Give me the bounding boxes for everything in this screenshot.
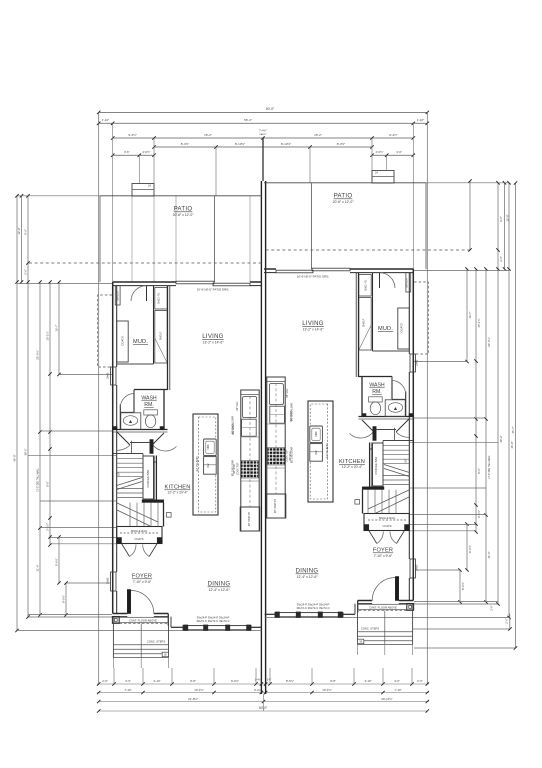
back wall with patio sliding door <box>113 281 176 283</box>
svg-text:16′-7″: 16′-7″ <box>55 324 59 331</box>
svg-text:7′-4¾″: 7′-4¾″ <box>259 129 267 133</box>
left dim stack <box>16 196 18 631</box>
svg-text:SINK: SINK <box>316 431 318 437</box>
svg-text:8′-8″: 8′-8″ <box>190 679 196 683</box>
svg-text:RM.: RM. <box>372 389 382 395</box>
svg-text:20′-6″ x 12′-0″: 20′-6″ x 12′-0″ <box>333 200 355 204</box>
svg-text:BO CHES & BAR: BO CHES & BAR <box>232 416 235 434</box>
dashed roof overhang left <box>29 262 262 264</box>
svg-text:8′-5½″: 8′-5½″ <box>286 679 294 683</box>
svg-text:7′-10″: 7′-10″ <box>124 688 131 692</box>
svg-text:48″ PANTRY: 48″ PANTRY <box>274 499 277 514</box>
svg-text:3′-10″: 3′-10″ <box>153 679 160 683</box>
closet double doors <box>122 544 130 557</box>
svg-text:MUD.: MUD. <box>378 326 393 332</box>
porch column <box>112 617 119 624</box>
stair cap wall <box>142 500 164 503</box>
wash room walls <box>134 389 168 391</box>
stair side walls <box>113 453 143 455</box>
svg-text:3′-4¾″: 3′-4¾″ <box>254 688 262 692</box>
svg-text:12′-0″: 12′-0″ <box>506 214 510 221</box>
sb mark <box>167 513 172 518</box>
svg-text:W.&D.-R.I.: W.&D.-R.I. <box>158 292 161 304</box>
svg-text:COATS: COATS <box>382 524 391 528</box>
svg-text:10′-6″x8′-0″ PATIO DRS.: 10′-6″x8′-0″ PATIO DRS. <box>197 288 230 292</box>
svg-text:1′-4¾″: 1′-4¾″ <box>255 679 262 682</box>
svg-text:7′-10″: 7′-10″ <box>394 688 401 692</box>
svg-text:8′-6″: 8′-6″ <box>477 468 481 474</box>
svg-text:56′-4″: 56′-4″ <box>244 118 252 122</box>
svg-text:DINING: DINING <box>208 582 231 588</box>
svg-text:38′-2″: 38′-2″ <box>24 448 28 455</box>
bottom dimension block <box>97 181 517 712</box>
svg-text:3′-10″: 3′-10″ <box>364 679 371 683</box>
vanity + sink <box>121 413 141 430</box>
svg-text:8′-8″: 8′-8″ <box>330 679 336 683</box>
coffee bar <box>143 456 154 499</box>
svg-text:PATIO: PATIO <box>334 194 353 200</box>
toilet <box>144 410 158 415</box>
mud room bottom <box>117 363 154 365</box>
stair treads mid <box>117 488 143 490</box>
svg-text:15′-2″: 15′-2″ <box>314 133 322 137</box>
svg-text:CANT. FLOOR ABOVE: CANT. FLOOR ABOVE <box>129 618 157 622</box>
svg-text:WASH: WASH <box>369 383 385 389</box>
svg-text:16′-7″: 16′-7″ <box>468 311 472 318</box>
svg-text:PATIO: PATIO <box>174 207 193 213</box>
svg-text:11′-6″: 11′-6″ <box>36 564 40 571</box>
svg-text:2′-6″: 2′-6″ <box>24 269 28 275</box>
svg-text:9′-6″: 9′-6″ <box>24 229 28 235</box>
svg-text:13′-2″ x 14′-6″: 13′-2″ x 14′-6″ <box>203 341 225 345</box>
svg-text:BENCH: BENCH <box>405 278 409 287</box>
svg-text:LIVING: LIVING <box>202 334 224 340</box>
svg-text:38′-2″: 38′-2″ <box>499 435 503 442</box>
svg-text:15′-1½″: 15′-1½″ <box>46 331 50 340</box>
svg-text:W.&D.-R.I.: W.&D.-R.I. <box>365 279 368 291</box>
svg-text:36″ REF: 36″ REF <box>286 388 289 398</box>
svg-text:RM.: RM. <box>144 402 154 408</box>
svg-text:1′-10″: 1′-10″ <box>417 118 424 122</box>
svg-text:39x72-C 39x72-C 39x72-C: 39x72-C 39x72-C 39x72-C <box>196 619 229 623</box>
svg-text:BO CHES & BAR: BO CHES & BAR <box>290 403 293 421</box>
landing jambs <box>113 427 117 430</box>
svg-text:9′-0½″: 9′-0½″ <box>231 679 239 683</box>
svg-text:42″ ISLAND: 42″ ISLAND <box>195 457 199 472</box>
living west wall <box>167 286 169 390</box>
right patio corner <box>469 181 471 250</box>
svg-text:2′-6″: 2′-6″ <box>102 679 108 683</box>
left unit linework <box>15 184 262 669</box>
svg-text:19x60: 19x60 <box>107 372 110 379</box>
svg-text:46′-0″: 46′-0″ <box>13 454 17 461</box>
svg-text:48″ PANTRY: 48″ PANTRY <box>248 512 251 527</box>
svg-text:UP: UP <box>117 472 121 476</box>
svg-text:SINGLE RAIL: SINGLE RAIL <box>379 516 396 520</box>
svg-text:10′-1½″: 10′-1½″ <box>322 688 331 692</box>
kitchen island <box>193 414 218 515</box>
svg-text:PARTY: PARTY <box>259 133 267 136</box>
svg-text:COOK TOP: COOK TOP <box>237 462 240 475</box>
svg-text:CONC. STEPS: CONC. STEPS <box>361 626 379 630</box>
svg-text:3′-6″: 3′-6″ <box>396 150 402 154</box>
svg-text:CONC. STEPS: CONC. STEPS <box>147 639 165 643</box>
svg-text:3′-0″: 3′-0″ <box>394 679 400 683</box>
mud room door from patio <box>131 286 147 301</box>
svg-text:2′-6″: 2′-6″ <box>499 256 503 262</box>
svg-text:2′-0½″: 2′-0½″ <box>143 150 151 154</box>
bench <box>115 286 120 306</box>
svg-text:19x60: 19x60 <box>416 564 419 571</box>
svg-text:13′-2″ x 14′-6″: 13′-2″ x 14′-6″ <box>303 328 325 332</box>
coats cabinet <box>117 321 129 362</box>
svg-text:12′-4″ x 12′-6″: 12′-4″ x 12′-6″ <box>297 575 319 579</box>
svg-text:BENCH: BENCH <box>116 291 120 300</box>
svg-text:SHELF: SHELF <box>159 331 163 340</box>
svg-text:FOYER: FOYER <box>373 548 393 554</box>
svg-text:LIVING: LIVING <box>302 321 324 327</box>
svg-text:3′-1½″: 3′-1½″ <box>46 523 50 531</box>
svg-text:60′-0″: 60′-0″ <box>259 706 268 710</box>
svg-text:8′-6½″: 8′-6½″ <box>62 595 66 603</box>
svg-text:42″ ISLAND: 42″ ISLAND <box>325 444 329 459</box>
svg-text:FOYER: FOYER <box>132 574 152 580</box>
svg-text:11′-6″: 11′-6″ <box>487 551 491 558</box>
landing door right <box>151 433 164 446</box>
svg-text:13′-2″ DBL TALL WALL: 13′-2″ DBL TALL WALL <box>488 455 491 479</box>
svg-text:7′-10″ x 9′-6″: 7′-10″ x 9′-6″ <box>133 580 152 584</box>
cant floor above box <box>113 617 168 622</box>
svg-text:COFFEE BAR: COFFEE BAR <box>146 470 150 488</box>
svg-text:BO CAB & BAR: BO CAB & BAR <box>290 447 293 464</box>
svg-text:12′-2″ x 20′-4″: 12′-2″ x 20′-4″ <box>342 465 363 469</box>
svg-text:60′-0″: 60′-0″ <box>266 107 275 111</box>
landing inner wall <box>131 441 133 454</box>
svg-text:2′-6″: 2′-6″ <box>505 618 509 624</box>
svg-text:13′-2″ DBL TALL WALL: 13′-2″ DBL TALL WALL <box>37 468 40 492</box>
svg-text:SINK: SINK <box>208 444 210 450</box>
svg-text:COFFEE BAR: COFFEE BAR <box>374 457 378 475</box>
dining window band <box>171 626 183 628</box>
svg-text:36″ REF: 36″ REF <box>236 401 239 411</box>
patio <box>100 195 262 197</box>
svg-text:COOK TOP: COOK TOP <box>285 449 288 462</box>
svg-text:CANT. FLOOR ABOVE: CANT. FLOOR ABOVE <box>369 605 397 609</box>
landing door left <box>117 432 130 445</box>
svg-text:2′-6″: 2′-6″ <box>417 679 423 683</box>
west wall <box>112 282 114 614</box>
svg-text:19x60: 19x60 <box>107 577 110 584</box>
svg-text:8′-3½″: 8′-3½″ <box>337 142 345 146</box>
svg-text:9′-6″: 9′-6″ <box>499 216 503 222</box>
svg-text:3′-6″: 3′-6″ <box>267 680 272 682</box>
kitchen wall counter <box>241 390 259 531</box>
svg-text:7′-10″ x 9′-6″: 7′-10″ x 9′-6″ <box>374 554 393 558</box>
svg-text:20′-6″ x 12′-0″: 20′-6″ x 12′-0″ <box>173 213 195 217</box>
svg-text:10′-6″x8′-0″ PATIO DRS.: 10′-6″x8′-0″ PATIO DRS. <box>297 275 330 279</box>
porch steps <box>112 624 114 658</box>
svg-text:19x60: 19x60 <box>416 359 419 366</box>
svg-text:UP: UP <box>404 459 408 463</box>
svg-text:8′-10½″: 8′-10½″ <box>235 142 245 146</box>
svg-text:COATS: COATS <box>134 537 143 541</box>
svg-text:29′-3½″: 29′-3½″ <box>487 337 491 347</box>
svg-text:BO CAB & BAR: BO CAB & BAR <box>232 460 235 477</box>
svg-text:46′-0″: 46′-0″ <box>510 441 514 448</box>
cantilever dashed bump <box>98 295 113 367</box>
svg-text:3′-1½″: 3′-1½″ <box>477 510 481 518</box>
svg-text:MUD.: MUD. <box>133 339 148 345</box>
svg-text:2′-0½″: 2′-0½″ <box>376 150 384 154</box>
wash room door <box>120 394 134 408</box>
front wall + door jog <box>113 613 128 615</box>
stair east wall lower <box>163 503 165 527</box>
svg-text:12′-2″ x 20′-4″: 12′-2″ x 20′-4″ <box>167 491 188 495</box>
svg-text:WASH: WASH <box>141 396 157 402</box>
svg-text:COATS: COATS <box>121 336 125 346</box>
svg-text:9′-4½″: 9′-4½″ <box>128 133 136 137</box>
dashed roof overhang right <box>266 249 470 251</box>
svg-text:9′-6½″: 9′-6½″ <box>468 545 472 553</box>
right unit (mirrored) <box>264 171 511 656</box>
svg-text:DINING: DINING <box>296 569 319 575</box>
stair east wall upper <box>153 456 155 501</box>
svg-text:3′-0″: 3′-0″ <box>125 679 131 683</box>
svg-text:8′-3½″: 8′-3½″ <box>181 142 189 146</box>
svg-text:8′-6″: 8′-6″ <box>46 481 50 487</box>
svg-text:12′-4″ x 12′-6″: 12′-4″ x 12′-6″ <box>209 588 231 592</box>
mud closet column <box>153 286 155 364</box>
svg-text:10′-1½″: 10′-1½″ <box>194 688 203 692</box>
party wall <box>260 181 262 694</box>
svg-text:8′-6½″: 8′-6½″ <box>461 582 465 590</box>
svg-text:9′-6½″: 9′-6½″ <box>55 558 59 566</box>
svg-text:SINGLE RAIL: SINGLE RAIL <box>131 529 148 533</box>
svg-text:COATS: COATS <box>400 323 404 333</box>
top dimension block <box>97 111 429 684</box>
svg-text:8′-10½″: 8′-10½″ <box>281 142 291 146</box>
svg-text:21′-8½″: 21′-8½″ <box>188 697 198 701</box>
svg-text:29′-3½″: 29′-3½″ <box>36 350 40 360</box>
svg-text:SHELF: SHELF <box>362 318 366 327</box>
svg-text:2′-6″: 2′-6″ <box>490 605 494 611</box>
front door <box>127 590 130 614</box>
stair treads upper <box>117 458 143 460</box>
svg-text:12′-0″: 12′-0″ <box>17 227 21 234</box>
chase <box>150 440 153 454</box>
svg-text:15′-1½″: 15′-1½″ <box>477 318 481 327</box>
foyer closet <box>117 527 162 544</box>
svg-text:9′-4½″: 9′-4½″ <box>389 133 397 137</box>
svg-text:39x72-C 39x72-C 39x72-C: 39x72-C 39x72-C 39x72-C <box>296 606 329 610</box>
svg-text:1′-10″: 1′-10″ <box>102 118 109 122</box>
svg-text:29′-11½″: 29′-11½″ <box>381 697 392 701</box>
svg-text:15′-2″: 15′-2″ <box>204 133 212 137</box>
svg-text:46′-7″: 46′-7″ <box>511 426 515 433</box>
stair break lines <box>117 478 142 486</box>
svg-text:3′-6″: 3′-6″ <box>124 150 130 154</box>
winder treads <box>129 503 131 527</box>
